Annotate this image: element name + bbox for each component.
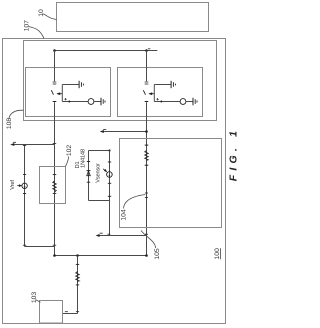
svg-text:104: 104	[120, 209, 127, 221]
bottom node dot middle	[76, 254, 79, 257]
box 104 (sensor block)	[120, 139, 222, 228]
cell bus vertical (right cell)	[153, 85, 155, 102]
diode D1 triangle	[87, 171, 91, 176]
switch upper contact double tick (left cell)	[53, 81, 57, 83]
leader for 108	[9, 110, 24, 119]
input arrow wire C	[97, 235, 147, 237]
Vsensor source inner mark	[109, 175, 110, 176]
switch blade (left cell)	[51, 90, 53, 95]
tick above diode	[87, 161, 90, 163]
resistor R104 top tick	[145, 144, 149, 146]
tick on box103 wire	[65, 311, 68, 313]
lower ground symbol (left cell)	[100, 98, 102, 105]
box 10 (external unit)	[57, 3, 209, 32]
wire into switch (right cell)	[146, 51, 148, 82]
leader 103	[36, 300, 41, 303]
right switch cell box	[118, 68, 203, 117]
upper ground symbol (right cell)	[170, 81, 172, 88]
left main wire below cell	[54, 117, 56, 256]
tick C at right main wire	[145, 233, 148, 235]
resistor R102 top tick	[53, 174, 57, 176]
wire to lower ground (right cell)	[186, 101, 193, 103]
plus label (left cell)	[64, 98, 66, 100]
bottom node dot left	[53, 254, 56, 257]
plus label (right cell)	[156, 98, 158, 100]
resistor R102 zigzag	[53, 181, 57, 192]
svg-text:107: 107	[23, 20, 30, 32]
tick C at Vsensor branch join	[107, 233, 110, 235]
right main wire below cell	[146, 117, 148, 256]
leader 105	[141, 231, 156, 249]
Vref branch vertical	[24, 145, 26, 247]
lower source wire (right cell)	[154, 101, 180, 103]
junction dot lower (right cell)	[160, 101, 162, 103]
loop top right node dot	[108, 149, 110, 151]
upper ground wire (right cell)	[154, 84, 170, 86]
tick at Vref connector left	[23, 244, 26, 246]
svg-text:108: 108	[6, 118, 13, 130]
switch arrow (left cell)	[57, 93, 62, 95]
lower source wire (left cell)	[62, 101, 88, 103]
box 103 (bottom block)	[40, 301, 63, 324]
wire into switch (left cell)	[54, 51, 56, 82]
node dot right top	[145, 49, 148, 52]
Vsensor branch vertical	[109, 151, 111, 236]
svg-text:10: 10	[38, 9, 45, 17]
switch lower contact tick (right cell)	[145, 101, 149, 103]
Vref source circle	[22, 183, 27, 188]
resistor R102 bottom tick	[53, 192, 57, 194]
junction tick A at left main wire	[53, 142, 57, 144]
left switch cell box	[26, 68, 111, 117]
resistor R103 zigzag	[76, 272, 80, 282]
Vref source inner mark	[24, 186, 25, 187]
wire to lower ground (left cell)	[94, 101, 101, 103]
wire below switch (right cell)	[146, 102, 148, 116]
svg-text:FIG. 1: FIG. 1	[227, 127, 239, 181]
svg-text:Vref: Vref	[10, 180, 16, 190]
wire below switch (left cell)	[54, 102, 56, 116]
wire top bus	[55, 50, 158, 52]
resistor R104 zigzag	[145, 150, 149, 160]
tick below Vref source	[23, 193, 26, 195]
node dot left top	[53, 49, 56, 52]
svg-text:1N4148: 1N4148	[80, 149, 86, 168]
upper ground wire (left cell)	[62, 84, 78, 86]
svg-text:Vsensor: Vsensor	[95, 163, 101, 183]
Vsensor arrow	[103, 169, 106, 171]
svg-text:105: 105	[154, 248, 161, 260]
diode D1 cathode bar	[87, 170, 91, 172]
rect 108 (switch section)	[24, 41, 217, 121]
tick below Vsensor source	[108, 182, 111, 184]
tick lower Vsensor branch	[108, 195, 111, 197]
underline for 100	[220, 248, 222, 259]
tick pair on right main wire	[145, 192, 148, 194]
input arrow wire B	[101, 131, 147, 133]
bottom bus wire	[55, 255, 147, 257]
source circle (right cell)	[180, 99, 186, 105]
leader for 10	[43, 14, 57, 20]
switch lower contact tick (left cell)	[53, 101, 57, 103]
box 102 (resistor block)	[40, 167, 66, 204]
outer border 107 (IC boundary)	[3, 39, 226, 324]
leader for 107	[28, 27, 44, 39]
Vref arrow	[17, 184, 20, 186]
input arrow wire A	[12, 144, 55, 146]
loop top wire	[89, 150, 110, 152]
tick at Vref connector right	[53, 244, 57, 246]
tick below diode	[87, 181, 90, 183]
tick at Vref junction	[23, 144, 26, 146]
junction dot lower (left cell)	[68, 101, 70, 103]
Vsensor source circle	[107, 172, 113, 178]
source circle (left cell)	[88, 99, 94, 105]
leader 104	[124, 195, 146, 209]
switch upper contact double tick (right cell)	[145, 81, 149, 83]
tick above Vref source	[23, 173, 26, 175]
lower ground symbol (right cell)	[192, 98, 194, 105]
tick above Vsensor source	[108, 161, 111, 163]
upper ground symbol (left cell)	[78, 81, 80, 88]
resistor R104 bottom tick	[145, 164, 149, 166]
resistor R103 bottom tick	[76, 284, 79, 286]
tick near right top node	[148, 48, 150, 50]
svg-text:102: 102	[66, 145, 73, 157]
svg-text:100: 100	[214, 248, 221, 260]
switch arrow (right cell)	[149, 93, 154, 95]
svg-text:103: 103	[31, 292, 38, 304]
switch blade (right cell)	[143, 90, 145, 95]
Vref bottom connector wire	[25, 246, 55, 248]
resistor branch vertical	[77, 256, 79, 314]
loop bottom wire	[89, 200, 110, 202]
cell bus vertical (left cell)	[61, 85, 63, 102]
resistor R103 top tick	[76, 263, 79, 265]
tick at branch corner	[76, 311, 79, 313]
diode branch vertical	[88, 151, 90, 201]
wire to box 103	[63, 313, 78, 315]
bottom node dot right	[145, 254, 148, 257]
leader 102	[66, 157, 69, 167]
node dot B at right main wire	[145, 130, 148, 133]
